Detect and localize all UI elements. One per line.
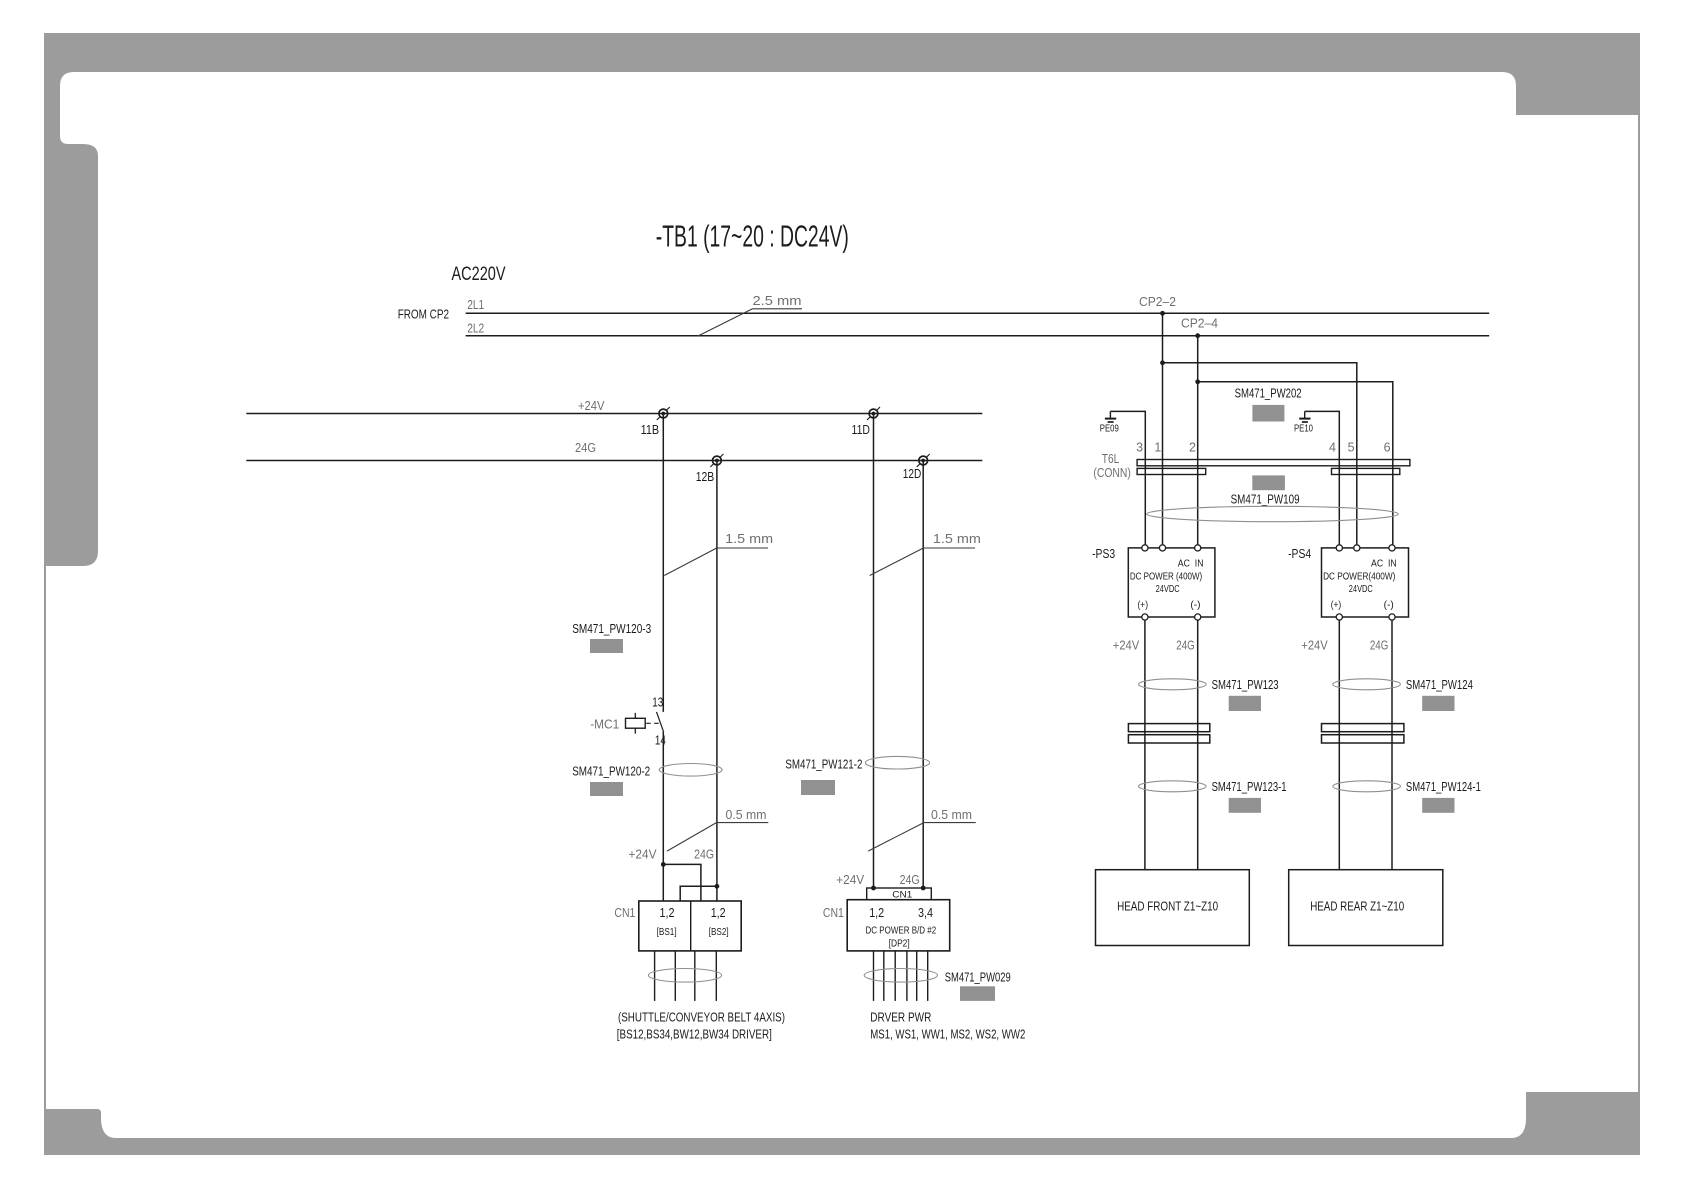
svg-text:1,2: 1,2 [869,906,884,920]
connector CN1 small box [867,888,932,900]
wire 11B drop lower [662,731,664,901]
svg-text:CN1: CN1 [892,890,912,900]
svg-text:-TB1 (17~20 : DC24V): -TB1 (17~20 : DC24V) [656,219,849,254]
svg-text:4: 4 [1329,441,1336,455]
frame right thin line [1638,115,1640,1092]
frame top-right block [1516,33,1640,115]
svg-text:DC POWER B/D #2: DC POWER B/D #2 [866,924,937,936]
ground PE09 [1105,411,1145,544]
svg-text:SM471_PW120-3: SM471_PW120-3 [572,621,651,636]
frame bottom-left block [44,1109,101,1138]
cable ellipse right pair [865,756,929,769]
svg-text:SM471_PW124-1: SM471_PW124-1 [1406,779,1481,794]
svg-text:DC POWER (400W): DC POWER (400W) [1130,571,1202,582]
svg-text:CN1: CN1 [614,906,635,920]
wire +24V bus [246,413,982,415]
svg-text:+24V: +24V [836,873,865,887]
svg-text:PE10: PE10 [1294,424,1313,435]
tag rect SM471_PW124 [1422,696,1454,711]
junction dot branch pin5 [1160,360,1165,365]
node 12B [710,454,723,467]
svg-text:11D: 11D [852,422,871,437]
wire CP2-2 drop to T6L pin1 [1162,313,1164,544]
svg-text:+24V: +24V [1301,639,1328,653]
coil MC1 box [626,718,646,728]
svg-text:14: 14 [655,733,666,748]
wires below DP2 box [874,951,928,1001]
svg-text:CP2–2: CP2–2 [1139,295,1176,309]
svg-text:(CONN): (CONN) [1093,466,1131,480]
svg-text:1.5 mm: 1.5 mm [725,532,773,546]
wire PS3 plus drop [1144,620,1146,870]
cable ellipse T6L harness [1147,506,1399,521]
svg-text:2: 2 [1189,441,1196,455]
wire 2L1 bus [466,312,1490,314]
svg-text:1.5 mm: 1.5 mm [933,532,981,546]
terminal bar T6L lower left [1137,468,1206,474]
wire branch to T6L pin5 [1163,363,1357,545]
svg-text:HEAD REAR Z1~Z10: HEAD REAR Z1~Z10 [1310,899,1404,914]
wire 24G jumper to BS1 [680,886,717,901]
svg-text:12D: 12D [903,466,922,481]
junction dot CP2-4 [1195,333,1200,338]
terminal bar T6L lower right [1332,468,1400,474]
junction dot +24V jumper [661,862,666,867]
svg-text:(-): (-) [1384,600,1394,611]
svg-text:FROM CP2: FROM CP2 [398,308,449,322]
svg-text:SM471_PW123-1: SM471_PW123-1 [1212,779,1287,794]
svg-text:SM471_PW120-2: SM471_PW120-2 [572,764,650,779]
tag rect SM471_PW123-1 [1229,798,1261,813]
block HEAD REAR [1289,870,1443,946]
cable ellipse PW124-1 [1333,781,1401,792]
wire CP2-4 drop to T6L pin2 [1197,336,1199,545]
block HEAD FRONT [1096,870,1250,946]
svg-text:SM471_PW121-2: SM471_PW121-2 [785,756,862,771]
svg-text:DRVER PWR: DRVER PWR [870,1010,931,1025]
frame bottom-right block [1526,1092,1640,1138]
svg-text:6: 6 [1384,441,1391,455]
cable ellipse BS harness [648,969,721,983]
cable ellipse PW123-1 [1139,781,1207,792]
cable ellipse PW123 [1139,679,1207,690]
svg-text:T6L: T6L [1102,452,1120,466]
node 11B [657,407,670,420]
wire 11D drop [873,414,875,889]
wire 11B drop upper [662,414,664,712]
junction dots CN1 [871,886,876,891]
dashed link MC1 [646,722,661,724]
svg-text:(-): (-) [1190,600,1200,611]
wire 12B drop [716,461,718,902]
svg-text:AC IN: AC IN [1371,559,1397,570]
wire 2L2 bus [466,335,1490,337]
connector box BS1/BS2 [639,901,741,951]
tag rect SM471_PW123 [1229,696,1261,711]
wire 12D drop [922,461,924,889]
svg-text:0.5 mm: 0.5 mm [726,808,767,822]
wire PS3 minus drop [1197,620,1199,870]
svg-text:SM471_PW202: SM471_PW202 [1235,386,1302,401]
svg-text:SM471_PW124: SM471_PW124 [1406,677,1473,692]
wire +24V jumper to BS2 [663,864,701,901]
svg-text:SM471_PW123: SM471_PW123 [1212,677,1279,692]
svg-text:2L1: 2L1 [467,298,484,312]
svg-text:24G: 24G [1176,639,1194,653]
svg-text:(+): (+) [1331,600,1342,611]
svg-text:24G: 24G [1370,639,1388,653]
wire PS4 plus drop [1338,620,1340,870]
svg-text:2L2: 2L2 [467,322,484,336]
node 11D [867,407,880,420]
junction dot branch pin6 [1195,379,1200,384]
node 12D [917,454,930,467]
svg-text:+24V: +24V [629,847,658,861]
connector bars PS4 [1322,724,1404,732]
svg-text:(SHUTTLE/CONVEYOR BELT 4AXIS): (SHUTTLE/CONVEYOR BELT 4AXIS) [618,1010,785,1025]
cable ellipse PW124 [1333,679,1401,690]
svg-text:CN1: CN1 [823,906,844,920]
svg-text:CP2–4: CP2–4 [1181,317,1218,331]
svg-text:+24V: +24V [578,399,605,413]
svg-text:24VDC: 24VDC [1349,584,1373,595]
svg-text:13: 13 [652,695,663,710]
svg-text:+24V: +24V [1113,639,1140,653]
wire 24G bus [246,460,982,462]
tag rect SM471_PW120-2 [590,782,623,796]
tag rect SM471_PW109 [1252,475,1285,490]
frame left thin line [44,566,46,1109]
tag rect SM471_PW121-2 [801,780,835,795]
svg-text:1,2: 1,2 [711,906,726,920]
frame left bar with pocket [44,72,98,566]
svg-text:[DP2]: [DP2] [889,938,910,950]
svg-text:24G: 24G [694,847,714,861]
svg-text:[BS2]: [BS2] [709,926,729,938]
ground PE10 [1299,411,1339,544]
wires below BS box [655,951,717,1001]
svg-text:3,4: 3,4 [918,906,933,920]
svg-text:SM471_PW109: SM471_PW109 [1231,491,1300,506]
svg-text:AC IN: AC IN [1178,559,1204,570]
terminal bar T6L top [1137,460,1410,466]
tag rect SM471_PW124-1 [1422,798,1454,813]
svg-text:[BS12,BS34,BW12,BW34 DRIVER]: [BS12,BS34,BW12,BW34 DRIVER] [617,1027,772,1042]
svg-text:PE09: PE09 [1100,424,1119,435]
svg-text:11B: 11B [641,422,660,437]
junction dot CP2-2 [1160,311,1165,316]
contact blade [657,712,664,731]
svg-text:5: 5 [1348,441,1355,455]
cable ellipse left pair [659,764,722,777]
svg-text:SM471_PW029: SM471_PW029 [945,969,1011,984]
tag rect SM471_PW120-3 [590,639,623,653]
svg-text:[BS1]: [BS1] [657,926,677,938]
svg-text:0.5 mm: 0.5 mm [931,808,972,822]
cable ellipse DP2 harness [864,969,937,983]
svg-text:-MC1: -MC1 [590,717,619,731]
svg-text:24VDC: 24VDC [1156,584,1180,595]
svg-text:-PS3: -PS3 [1092,546,1115,561]
frame bottom band [44,1138,1640,1155]
tag rect SM471_PW202 [1252,405,1284,422]
connector bars PS3 [1128,724,1209,732]
svg-text:1,2: 1,2 [660,906,675,920]
svg-text:MS1, WS1, WW1, MS2, WS2, WW2: MS1, WS1, WW1, MS2, WS2, WW2 [870,1027,1025,1042]
svg-text:(+): (+) [1138,600,1149,611]
wire PS4 minus drop [1391,620,1393,870]
svg-text:12B: 12B [696,469,715,484]
connector box DP2 [847,900,950,951]
tag rect SM471_PW029 [960,986,995,1001]
svg-text:24G: 24G [575,441,596,455]
svg-text:AC220V: AC220V [452,264,506,285]
wire branch to T6L pin6 [1198,382,1393,545]
svg-text:DC POWER(400W): DC POWER(400W) [1323,571,1395,582]
svg-text:3: 3 [1136,441,1143,455]
svg-text:1: 1 [1154,441,1161,455]
svg-text:-PS4: -PS4 [1288,546,1311,561]
svg-text:HEAD FRONT Z1~Z10: HEAD FRONT Z1~Z10 [1117,899,1218,914]
svg-text:2.5 mm: 2.5 mm [753,294,802,308]
junction dot 24G jumper [715,884,720,889]
svg-text:24G: 24G [900,873,920,887]
